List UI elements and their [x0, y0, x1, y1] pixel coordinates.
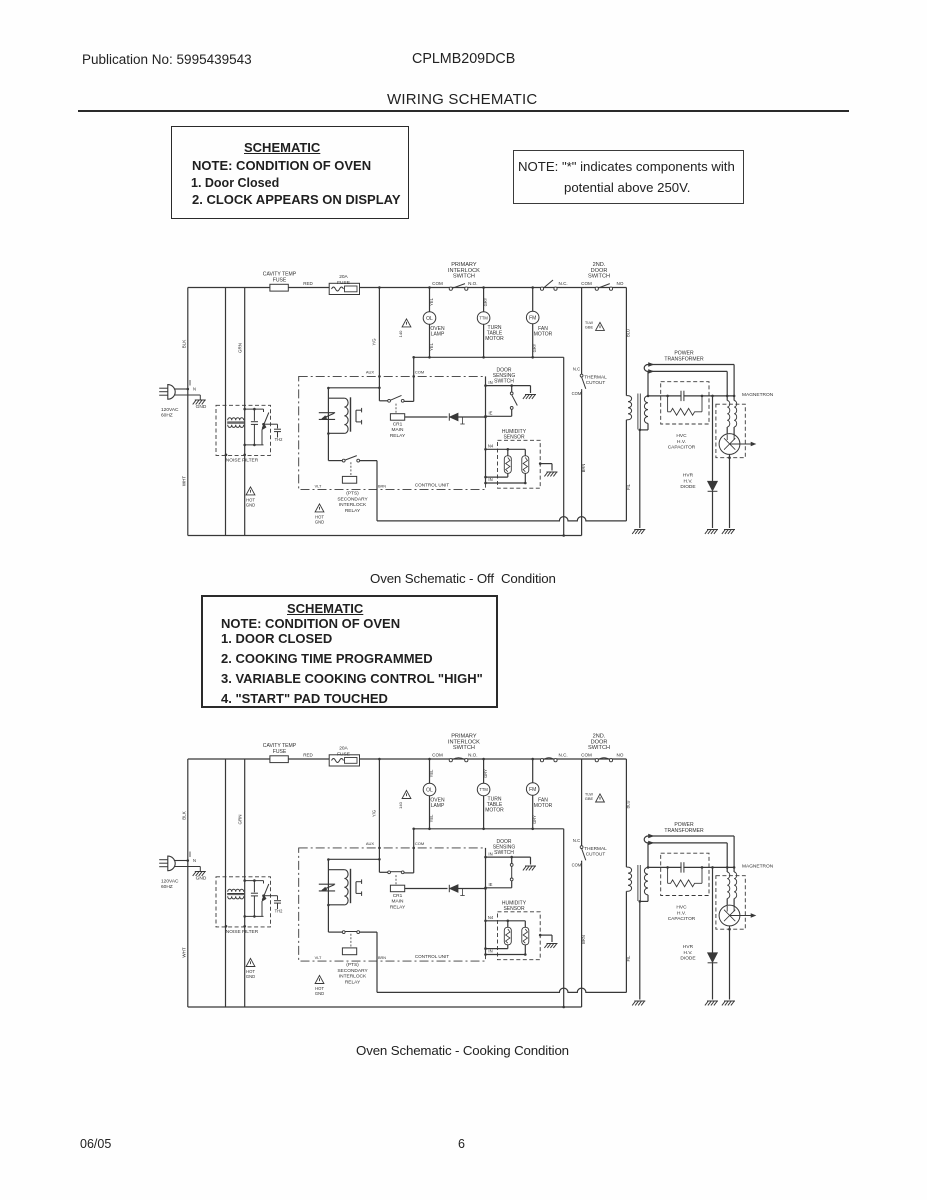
svg-text:IE: IE: [489, 411, 493, 416]
note box 3: cooking-condition notes: [201, 595, 498, 708]
svg-text:N.C: N.C: [573, 838, 580, 843]
svg-text:120VAC: 120VAC: [161, 407, 179, 413]
noise filter capacitor C1 (B): [253, 881, 255, 893]
magnetron antenna arrow (A): [730, 443, 752, 445]
svg-text:FUSE: FUSE: [273, 749, 287, 755]
svg-text:VLT: VLT: [315, 485, 322, 489]
door sensing switch vertical bus (A): [485, 376, 487, 483]
svg-text:RED: RED: [303, 753, 313, 758]
filament winding loop (B): [644, 836, 648, 843]
AC plug P1 (B): [159, 859, 168, 861]
svg-text:CONTROL UNIT: CONTROL UNIT: [415, 954, 449, 959]
ground magnetron (A): [722, 530, 735, 534]
svg-text:CAPACITOR: CAPACITOR: [668, 916, 696, 922]
noise filter inner rail bottom (B): [245, 915, 264, 917]
svg-text:MOTOR: MOTOR: [485, 808, 504, 814]
wire vertical L3 through noise filter (B): [244, 759, 246, 1007]
svg-text:CUTOUT: CUTOUT: [586, 852, 606, 857]
svg-text:N4: N4: [488, 444, 494, 449]
svg-text:NOISE FILTER: NOISE FILTER: [226, 929, 259, 935]
svg-text:SWITCH: SWITCH: [453, 745, 475, 751]
wire LVT top feed (A): [328, 387, 379, 389]
warning triangle near oven lamp (A): [402, 319, 411, 327]
humidity sensor output to ground (B): [540, 934, 552, 936]
low voltage transformer LVT primary loop (A): [328, 397, 344, 399]
wire HV secondary bottom return (B): [647, 895, 649, 902]
footer: page number: [458, 1137, 465, 1151]
svg-text:N.O.: N.O.: [468, 753, 477, 758]
door sensing switch DS (A): [486, 385, 531, 387]
wire COM feed vertical (A): [413, 357, 415, 401]
wire CR1 output (A): [405, 416, 448, 418]
svg-text:GBE: GBE: [585, 325, 594, 330]
monitor fuse F2 (A): [329, 283, 359, 294]
svg-text:COM: COM: [572, 391, 582, 396]
wire top supply rail (B): [188, 758, 627, 760]
primary interlock switch SW1 (A): [449, 287, 452, 290]
svg-text:CR1: CR1: [393, 893, 403, 899]
note box 1: schematic off-condition notes: [171, 126, 409, 219]
svg-text:LAMP: LAMP: [431, 803, 445, 809]
wire LVT left vertical (B): [327, 860, 329, 933]
svg-text:WHT: WHT: [182, 947, 187, 957]
header rule line: [78, 110, 849, 112]
LVT secondary terminals (B): [355, 882, 357, 894]
svg-text:N: N: [193, 387, 196, 392]
svg-text:60HZ: 60HZ: [161, 884, 173, 890]
svg-text:INTERLOCK: INTERLOCK: [339, 502, 367, 508]
svg-text:TTM: TTM: [479, 316, 488, 321]
ground plug GND (A): [199, 395, 201, 400]
wire HV secondary to filament (B): [647, 843, 649, 868]
svg-text:COM: COM: [432, 281, 443, 286]
caption: oven schematic cooking condition: [356, 1043, 569, 1058]
svg-text:SECONDARY: SECONDARY: [337, 496, 368, 502]
noise filter unit NF dashed box (B): [216, 877, 271, 927]
svg-text:GND: GND: [246, 503, 255, 508]
secondary door switch SW2 (A): [540, 287, 543, 290]
wire FM-side vertical drop (B): [563, 829, 565, 1007]
wire motor return rail (B): [414, 828, 564, 830]
svg-text:120VAC: 120VAC: [161, 879, 179, 885]
svg-text:MAIN: MAIN: [392, 427, 405, 433]
node rail-AUX (A): [378, 286, 381, 289]
svg-text:20A: 20A: [339, 746, 348, 752]
wire FM-side vertical drop (A): [563, 357, 565, 535]
noise filter capacitor C2 (B): [264, 895, 278, 897]
header: model number: [412, 51, 515, 67]
noise filter choke winding lower (A): [228, 425, 244, 428]
noise filter core bars (A): [227, 421, 244, 423]
humidity sensor top rail (A): [486, 448, 526, 450]
magnetron filament choke 1 (B): [727, 872, 730, 898]
filament winding loop (A): [644, 365, 648, 372]
HV capacitor C3 plates (A): [680, 391, 682, 401]
ground transformer (B): [632, 1001, 645, 1005]
ground transformer (A): [632, 530, 645, 534]
svg-text:20A: 20A: [339, 274, 348, 280]
svg-text:GND: GND: [246, 974, 255, 979]
control unit dashed outline (B): [299, 848, 486, 961]
low voltage transformer LVT primary loop (B): [328, 869, 344, 871]
node plug junction (A): [187, 388, 190, 391]
ground HV diode (A): [705, 530, 718, 534]
svg-text:Y/G: Y/G: [372, 810, 377, 817]
svg-text:GRY: GRY: [483, 769, 488, 778]
svg-text:BLK: BLK: [182, 340, 187, 349]
wire left outer loop vertical L2 (A): [225, 288, 227, 536]
wire HV secondary to filament (A): [647, 371, 649, 396]
humidity sensor element 1 (A): [507, 449, 509, 456]
svg-text:(PTS): (PTS): [346, 962, 359, 968]
svg-text:AUX: AUX: [366, 841, 375, 846]
magnetron MG (B): [726, 899, 728, 907]
node rail-FM (B): [531, 758, 534, 761]
svg-text:N.C.: N.C.: [559, 281, 568, 286]
svg-text:OL: OL: [426, 316, 433, 322]
svg-text:TRANSFORMER: TRANSFORMER: [664, 356, 704, 362]
svg-text:BLU: BLU: [626, 800, 631, 808]
oven lamp OL (A): [429, 288, 431, 312]
bleed resistor R1 (B): [667, 867, 669, 883]
svg-text:SWITCH: SWITCH: [494, 850, 514, 856]
svg-text:NO: NO: [617, 753, 624, 758]
noise filter choke winding upper (B): [228, 889, 244, 892]
primary interlock switch SW1 (B): [449, 759, 452, 762]
noise filter inner rail bottom (A): [245, 444, 264, 446]
node rail-OL (A): [428, 286, 431, 289]
humidity sensor top rail (B): [486, 920, 526, 922]
humidity sensor dashed box (B): [498, 912, 541, 960]
cavity temp fuse F1 (B): [270, 756, 288, 763]
wire transformer primary return (A): [625, 420, 627, 521]
svg-text:MOTOR: MOTOR: [485, 336, 504, 342]
svg-text:GRN: GRN: [238, 343, 243, 353]
svg-text:H.V.: H.V.: [677, 439, 686, 445]
wire HV rail (A): [648, 395, 734, 397]
svg-text:HVR: HVR: [683, 944, 694, 950]
svg-text:DIODE: DIODE: [680, 484, 695, 490]
wire HV rail (B): [648, 866, 734, 868]
wire right bus TCO vertical (B): [581, 759, 583, 846]
node plug junction (B): [187, 859, 190, 862]
svg-text:IN: IN: [488, 380, 492, 385]
footer: date: [80, 1137, 111, 1151]
door sensing interlock switch SW3 (A): [595, 287, 598, 290]
wire top supply rail (A): [188, 287, 627, 289]
header: publication number: [82, 52, 252, 67]
svg-text:IN: IN: [488, 851, 492, 856]
wire plug cord lines (B): [174, 860, 188, 862]
noise filter inner rail top (B): [245, 880, 264, 882]
wire left outer loop vertical L1 (A): [187, 288, 189, 536]
svg-text:TH2: TH2: [275, 909, 283, 914]
cavity temp fuse F1 (A): [270, 284, 288, 291]
svg-text:MAIN: MAIN: [392, 899, 405, 905]
svg-text:N.C: N.C: [573, 367, 580, 372]
svg-text:RELAY: RELAY: [390, 905, 406, 911]
wire bottom return rail (A): [188, 535, 582, 537]
power transformer T1 primary (A): [626, 396, 631, 420]
svg-text:IN: IN: [488, 949, 492, 954]
LVT core bar (A): [350, 397, 352, 431]
svg-text:FM: FM: [529, 315, 536, 321]
ground door sensing (B): [530, 857, 532, 864]
power transformer T1 core (A): [637, 394, 639, 430]
wire LVT top feed (B): [328, 858, 379, 860]
svg-text:GRY: GRY: [532, 343, 537, 352]
noise filter varistor RV1 (A): [263, 409, 265, 412]
control unit dashed outline (A): [299, 376, 486, 489]
svg-text:AUX: AUX: [366, 370, 375, 375]
wire left outer loop vertical L2 (B): [225, 759, 227, 1007]
magnetron MG (A): [726, 427, 728, 435]
wire AUX feed vertical (B): [378, 759, 380, 872]
ground door sensing (A): [530, 386, 532, 393]
svg-text:BRN: BRN: [378, 485, 386, 489]
diode D1 (A): [448, 413, 450, 420]
svg-text:TRANSFORMER: TRANSFORMER: [664, 828, 704, 834]
HV diode D2 (A): [712, 396, 714, 481]
humidity sensor element 1 (B): [507, 921, 509, 928]
warning triangle near oven lamp (B): [402, 790, 411, 798]
secondary interlock relay contact PTS (B): [328, 931, 342, 933]
svg-text:SWITCH: SWITCH: [588, 745, 610, 751]
svg-text:SENSOR: SENSOR: [503, 906, 525, 912]
noise filter inner rail top (A): [245, 408, 264, 410]
wire right bus to transformer (A): [625, 288, 627, 396]
svg-text:GRN: GRN: [238, 815, 243, 825]
node rail-TTM (A): [482, 286, 485, 289]
noise filter varistor RV1 (B): [263, 881, 265, 884]
noise filter core bars (B): [227, 893, 244, 895]
svg-text:Y/G: Y/G: [372, 338, 377, 345]
node rail-OL (B): [428, 758, 431, 761]
ground magnetron (B): [722, 1001, 735, 1005]
magnetron thermal cutout TCO (B): [580, 846, 583, 849]
bleed resistor R1 (A): [667, 396, 669, 412]
svg-text:NO: NO: [617, 281, 624, 286]
node noise filter box crossings (B): [225, 925, 228, 928]
svg-text:FUSE: FUSE: [337, 751, 350, 757]
svg-text:HVC: HVC: [676, 905, 687, 911]
oven lamp OL (B): [429, 759, 431, 783]
svg-text:RED: RED: [303, 281, 313, 286]
svg-text:COM: COM: [415, 841, 424, 846]
svg-text:N.O.: N.O.: [468, 281, 477, 286]
LVT adjust arrow (A): [319, 412, 335, 414]
node rail-FM (A): [531, 286, 534, 289]
door sensing switch vertical bus (B): [485, 848, 487, 955]
warning triangle right bus (B): [596, 794, 605, 802]
svg-text:GRY: GRY: [532, 815, 537, 824]
svg-text:OL: OL: [426, 787, 433, 793]
wire LVT left vertical (A): [327, 388, 329, 461]
humidity sensor bottom rails (A): [486, 476, 508, 478]
wire HV secondary bottom return (A): [647, 423, 649, 430]
svg-text:MOTOR: MOTOR: [534, 803, 553, 809]
noise filter choke winding lower (B): [228, 896, 244, 899]
svg-text:NOISE FILTER: NOISE FILTER: [226, 458, 259, 464]
svg-text:GBE: GBE: [585, 796, 594, 801]
noise filter unit NF dashed box (A): [216, 405, 271, 455]
svg-text:140: 140: [398, 801, 403, 808]
svg-text:GND: GND: [315, 991, 324, 996]
wire magnetron cathode (A): [729, 454, 731, 528]
wire AUX feed vertical (A): [378, 288, 380, 401]
relay coil CR1 (A): [395, 404, 397, 414]
svg-text:FIL: FIL: [626, 483, 631, 490]
warning triangle noise filter (A): [246, 487, 255, 495]
svg-text:FUSE: FUSE: [273, 277, 287, 283]
warning triangle control unit (A): [315, 504, 324, 512]
svg-text:BRN: BRN: [378, 956, 386, 960]
humidity sensor bottom rails (B): [486, 948, 508, 950]
svg-text:CUTOUT: CUTOUT: [586, 380, 606, 385]
secondary door switch SW2 (B): [540, 759, 543, 762]
test point tick (A): [462, 417, 464, 424]
HV capacitor C3 plates (B): [680, 862, 682, 872]
svg-text:SWITCH: SWITCH: [453, 274, 475, 280]
svg-text:GND: GND: [196, 875, 207, 881]
svg-text:TTM: TTM: [479, 787, 488, 792]
svg-text:DIODE: DIODE: [680, 956, 695, 962]
AC plug P1 (A): [159, 387, 168, 389]
node noise filter box crossings (A): [225, 454, 228, 457]
magnetron antenna arrow (B): [730, 915, 752, 917]
svg-text:BLU: BLU: [626, 329, 631, 337]
svg-text:COM: COM: [432, 753, 443, 758]
secondary interlock relay coil PTS (A): [350, 462, 352, 476]
svg-text:BRN: BRN: [581, 935, 586, 944]
svg-text:RELAY: RELAY: [345, 979, 361, 985]
svg-text:H.V.: H.V.: [684, 950, 693, 956]
svg-text:FIL: FIL: [626, 955, 631, 962]
svg-text:HVC: HVC: [676, 433, 687, 439]
svg-text:THERMAL: THERMAL: [584, 375, 607, 380]
wire plug neutral tick (B): [189, 852, 191, 858]
svg-text:COM: COM: [572, 863, 582, 868]
humidity sensor element 2 (A): [524, 449, 526, 456]
warning triangle control unit (B): [315, 975, 324, 983]
svg-text:CONTROL UNIT: CONTROL UNIT: [415, 483, 449, 488]
HV capacitor dashed box (A): [661, 382, 709, 424]
LVT adjust arrow (B): [319, 883, 335, 885]
caption: oven schematic off condition: [370, 571, 556, 586]
test point tick (B): [462, 889, 464, 896]
note box 2: components above 250V: [513, 150, 744, 204]
relay contact CR1 (B): [379, 871, 387, 873]
magnetron dashed box (A): [716, 404, 745, 458]
wire vertical L3 through noise filter (A): [244, 288, 246, 536]
warning triangle noise filter (B): [246, 958, 255, 966]
secondary interlock relay contact PTS (A): [328, 460, 342, 462]
magnetron thermal cutout TCO (A): [580, 374, 583, 377]
wire transformer primary return (B): [625, 891, 627, 992]
svg-text:N: N: [193, 858, 196, 863]
svg-text:GND: GND: [315, 520, 324, 525]
svg-text:COM: COM: [581, 753, 592, 758]
svg-text:YEL: YEL: [429, 814, 434, 822]
magnetron filament choke 2 (B): [734, 872, 737, 898]
magnetron filament choke 2 (A): [734, 401, 737, 427]
door sensing interlock switch SW3 (B): [595, 759, 598, 762]
svg-text:THERMAL: THERMAL: [584, 846, 607, 851]
svg-text:BRN: BRN: [581, 464, 586, 473]
svg-text:H.V.: H.V.: [684, 478, 693, 484]
wire PTS to bottom rail (A): [376, 461, 378, 521]
power transformer T1 HV secondary (B): [644, 867, 648, 894]
relay contact CR1 (A): [379, 400, 387, 402]
relay coil CR1 (B): [395, 875, 397, 885]
humidity sensor dashed box (A): [498, 440, 541, 488]
svg-text:CR1: CR1: [393, 421, 403, 427]
wire lower rail mid with crossover hops (A): [377, 517, 626, 521]
svg-text:RELAY: RELAY: [390, 433, 406, 439]
wire bottom return rail (B): [188, 1006, 582, 1008]
svg-text:GND: GND: [196, 404, 207, 410]
svg-text:H.V.: H.V.: [677, 910, 686, 916]
turntable motor TTM (B): [483, 759, 485, 783]
wire plug neutral tick (A): [189, 380, 191, 386]
wire plug cord lines (A): [174, 388, 188, 390]
wire right bus TCO vertical (A): [581, 288, 583, 375]
diode D1 (B): [448, 885, 450, 892]
svg-text:VLT: VLT: [315, 956, 322, 960]
warning triangle right bus (A): [596, 322, 605, 330]
humidity sensor output to ground (A): [540, 463, 552, 465]
HV diode D2 (B): [712, 867, 714, 952]
magnetron dashed box (B): [716, 876, 745, 930]
wire right bus to transformer (B): [625, 759, 627, 867]
power transformer T1 core (B): [637, 865, 639, 901]
turntable motor TTM (A): [483, 288, 485, 312]
LVT core bar (B): [350, 869, 352, 903]
svg-text:60HZ: 60HZ: [161, 413, 173, 419]
svg-text:COM: COM: [581, 281, 592, 286]
node rail-TTM (B): [482, 758, 485, 761]
svg-text:INTERLOCK: INTERLOCK: [339, 974, 367, 980]
svg-text:YEL: YEL: [429, 342, 434, 350]
noise filter choke winding upper (A): [228, 418, 244, 421]
svg-text:IN: IN: [488, 477, 492, 482]
svg-text:MAGNETRON: MAGNETRON: [742, 864, 774, 870]
wire magnetron cathode (B): [729, 926, 731, 1000]
ground HV diode (B): [705, 1001, 718, 1005]
svg-text:COM: COM: [415, 370, 424, 375]
ground plug GND (B): [199, 867, 201, 872]
secondary interlock relay coil PTS (B): [350, 934, 352, 948]
svg-text:N4: N4: [488, 915, 494, 920]
power transformer T1 primary (B): [626, 867, 631, 891]
node rail-AUX (B): [378, 758, 381, 761]
svg-text:HVR: HVR: [683, 473, 694, 479]
svg-text:TH2: TH2: [275, 437, 283, 442]
header: page title WIRING SCHEMATIC: [387, 91, 537, 108]
fan motor FM (B): [532, 759, 534, 783]
svg-text:SWITCH: SWITCH: [588, 274, 610, 280]
LVT secondary terminals (A): [355, 410, 357, 422]
humidity sensor element 2 (B): [524, 921, 526, 928]
HV capacitor dashed box (B): [661, 853, 709, 895]
svg-text:N.C.: N.C.: [559, 753, 568, 758]
svg-text:LAMP: LAMP: [431, 332, 445, 338]
power transformer T1 HV secondary (A): [644, 396, 648, 423]
svg-text:SENSOR: SENSOR: [503, 434, 525, 440]
wire motor return rail (A): [414, 356, 564, 358]
svg-text:MOTOR: MOTOR: [534, 332, 553, 338]
svg-text:SWITCH: SWITCH: [494, 379, 514, 385]
